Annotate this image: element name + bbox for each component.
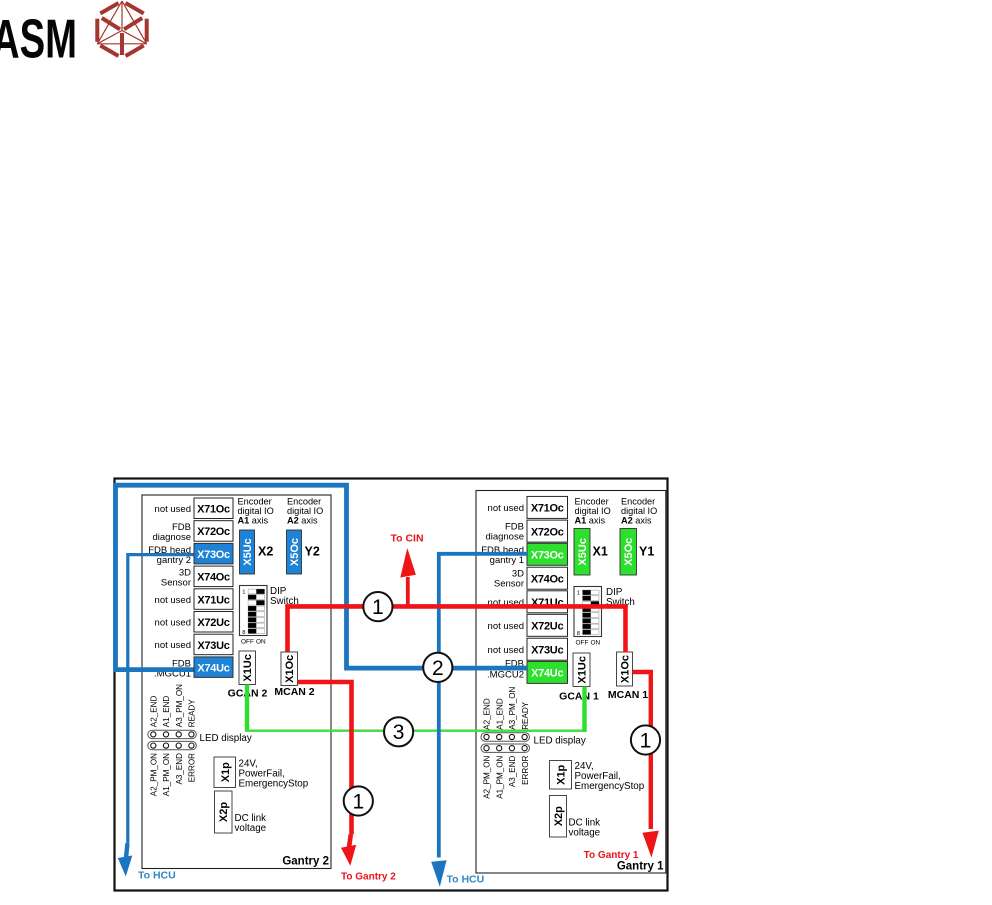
svg-text:Encoder: Encoder	[238, 496, 272, 506]
svg-text:A3_PM_ON: A3_PM_ON	[508, 686, 517, 729]
svg-text:Y2: Y2	[305, 545, 320, 559]
svg-text:X73Oc: X73Oc	[531, 550, 564, 562]
svg-text:not used: not used	[488, 503, 524, 514]
svg-text:1: 1	[242, 590, 245, 596]
connector X71Oc	[527, 496, 568, 518]
svg-text:Encoder: Encoder	[287, 496, 321, 506]
svg-text:not used: not used	[155, 618, 191, 629]
connector X5Uc (Gantry 2)	[240, 530, 255, 574]
svg-text:digital IO: digital IO	[287, 506, 323, 516]
svg-text:GCAN 1: GCAN 1	[559, 691, 599, 703]
svg-text:X72Uc: X72Uc	[531, 621, 563, 633]
svg-text:X2p: X2p	[553, 806, 565, 826]
Gantry 1 board outline	[476, 491, 666, 874]
svg-text:not used: not used	[488, 621, 524, 632]
svg-text:digital IO: digital IO	[575, 506, 611, 516]
svg-text:2: 2	[432, 657, 444, 680]
svg-text:LED display: LED display	[534, 736, 586, 747]
node 1 on red wire to Gantry 1	[631, 725, 660, 754]
svg-text:diagnose: diagnose	[152, 532, 191, 543]
svg-text:READY: READY	[188, 699, 197, 727]
svg-text:ASM: ASM	[0, 8, 77, 70]
arrow to HCU (left)	[126, 844, 127, 859]
connector X1p (Gantry 2)	[214, 757, 236, 788]
wire blue 2: Gantry2 X74Uc to Gantry1 X74Uc	[116, 485, 528, 669]
LED display (Gantry 2)	[148, 730, 197, 738]
connector X74Oc	[527, 567, 568, 589]
svg-text:A1_END: A1_END	[495, 698, 504, 730]
svg-text:EmergencyStop: EmergencyStop	[575, 781, 645, 792]
Gantry 2 board outline	[142, 495, 331, 869]
svg-text:X1Oc: X1Oc	[620, 655, 632, 683]
svg-text:voltage: voltage	[569, 828, 601, 839]
svg-text:MCAN 1: MCAN 1	[608, 689, 648, 701]
svg-text:A2 axis: A2 axis	[621, 516, 652, 526]
svg-text:A2_PM_ON: A2_PM_ON	[150, 753, 159, 796]
connector X71Uc	[527, 591, 568, 613]
svg-text:X74Uc: X74Uc	[197, 662, 229, 674]
svg-text:X2p: X2p	[218, 802, 230, 822]
connector X73Oc	[527, 543, 568, 565]
svg-text:X1: X1	[593, 545, 608, 559]
wire green 3: GCAN2 to GCAN1	[245, 685, 249, 731]
svg-text:8: 8	[242, 630, 245, 636]
svg-text:X71Oc: X71Oc	[531, 503, 564, 515]
svg-text:X71Oc: X71Oc	[197, 504, 230, 516]
svg-text:A3_END: A3_END	[175, 753, 184, 785]
svg-text:Gantry 2: Gantry 2	[282, 856, 329, 868]
wire red to Gantry 1 (from MCAN1)	[633, 672, 651, 829]
svg-text:To HCU: To HCU	[447, 874, 485, 886]
svg-text:8: 8	[577, 631, 580, 637]
svg-text:digital IO: digital IO	[238, 506, 274, 516]
svg-text:1: 1	[577, 591, 580, 597]
svg-text:ON: ON	[256, 639, 266, 646]
svg-text:To Gantry 1: To Gantry 1	[584, 850, 639, 861]
svg-text:A2_END: A2_END	[483, 698, 492, 730]
svg-text:voltage: voltage	[235, 823, 267, 834]
svg-text:.MGCU2: .MGCU2	[487, 670, 524, 681]
outer frame	[115, 479, 668, 891]
svg-text:not used: not used	[155, 595, 191, 606]
connector X72Oc	[194, 521, 233, 542]
svg-text:Sensor: Sensor	[494, 579, 524, 590]
node 1 on red wire to Gantry 2	[344, 786, 373, 815]
svg-text:LED display: LED display	[200, 733, 252, 744]
svg-text:X72Uc: X72Uc	[197, 617, 229, 629]
svg-text:not used: not used	[155, 640, 191, 651]
svg-text:not used: not used	[488, 645, 524, 656]
svg-text:A2 axis: A2 axis	[287, 516, 318, 526]
connector X1Oc MCAN 1	[617, 652, 633, 686]
node 1 (CIN link) on red wire	[363, 592, 392, 621]
connector X73Uc	[527, 638, 568, 660]
svg-text:X5Oc: X5Oc	[289, 538, 301, 566]
svg-text:X74Oc: X74Oc	[531, 574, 564, 586]
svg-text:EmergencyStop: EmergencyStop	[239, 779, 309, 790]
svg-text:Gantry 1: Gantry 1	[617, 861, 664, 873]
svg-text:X74Oc: X74Oc	[197, 572, 230, 584]
svg-text:X73Uc: X73Uc	[197, 640, 229, 652]
svg-text:A2_END: A2_END	[150, 696, 159, 728]
node 3 on green wire	[384, 717, 413, 746]
svg-text:gantry 2: gantry 2	[157, 555, 191, 566]
wire red branch to CIN	[406, 577, 410, 606]
connector X5Oc (Gantry 1)	[620, 529, 637, 576]
svg-text:A1_END: A1_END	[162, 696, 171, 728]
svg-text:To HCU: To HCU	[138, 869, 176, 881]
svg-text:MCAN 2: MCAN 2	[274, 686, 314, 698]
svg-text:X72Oc: X72Oc	[531, 526, 564, 538]
svg-text:X71Uc: X71Uc	[197, 594, 229, 606]
svg-text:X1p: X1p	[556, 764, 568, 784]
svg-text:X5Oc: X5Oc	[623, 538, 635, 566]
svg-text:not used: not used	[155, 504, 191, 515]
svg-text:A2_PM_ON: A2_PM_ON	[483, 755, 492, 798]
svg-text:ERROR: ERROR	[188, 753, 197, 782]
connector X5Oc (Gantry 2)	[287, 530, 302, 574]
svg-text:X1p: X1p	[220, 762, 232, 782]
connector X5Uc (Gantry 1)	[574, 529, 590, 576]
svg-text:X1Oc: X1Oc	[284, 655, 296, 683]
svg-text:1: 1	[372, 596, 384, 619]
connector X73Uc	[194, 634, 233, 655]
svg-text:X74Uc: X74Uc	[531, 668, 563, 680]
svg-text:X2: X2	[258, 545, 273, 559]
arrow to CIN	[400, 548, 416, 578]
svg-text:X73Oc: X73Oc	[197, 549, 230, 561]
arrow to HCU (right)	[431, 860, 446, 887]
svg-text:Encoder: Encoder	[575, 496, 609, 506]
connector X74Oc	[194, 566, 233, 587]
svg-text:1: 1	[352, 790, 364, 813]
connector X1Uc GCAN 1	[573, 653, 590, 687]
connector X1Oc MCAN 2	[281, 652, 298, 686]
svg-text:X5Uc: X5Uc	[577, 538, 589, 566]
wire red 1: MCAN2 to MCAN1 via CIN branch	[288, 606, 626, 652]
svg-text:1: 1	[640, 729, 652, 752]
connector X74Uc	[194, 657, 233, 678]
svg-text:ON: ON	[591, 640, 601, 647]
wire blue to HCU (right, from Gantry1 X73Oc)	[439, 554, 527, 858]
connector X2p (Gantry 1)	[550, 796, 567, 838]
svg-text:Encoder: Encoder	[621, 496, 655, 506]
svg-text:A1 axis: A1 axis	[238, 516, 269, 526]
DIP switch (Gantry 2)	[240, 586, 268, 636]
svg-text:Y1: Y1	[639, 545, 654, 559]
svg-text:3: 3	[393, 721, 405, 744]
svg-text:A3_PM_ON: A3_PM_ON	[175, 684, 184, 727]
svg-text:X5Uc: X5Uc	[242, 538, 254, 566]
svg-text:OFF: OFF	[241, 639, 254, 646]
svg-text:A1 axis: A1 axis	[575, 516, 606, 526]
node 2 on blue wire	[423, 653, 452, 682]
connector X74Uc	[527, 661, 568, 683]
wire red to Gantry 2 (from MCAN2)	[298, 682, 352, 835]
svg-text:Sensor: Sensor	[161, 578, 191, 589]
LED display (Gantry 1)	[481, 733, 530, 741]
svg-text:gantry 1: gantry 1	[490, 555, 524, 566]
svg-text:X1Uc: X1Uc	[577, 656, 589, 684]
svg-text:ERROR: ERROR	[521, 755, 530, 784]
ASM logo hexagon emblem	[97, 1, 146, 56]
connector X71Oc	[194, 498, 233, 519]
svg-text:A1_PM_ON: A1_PM_ON	[495, 755, 504, 798]
arrow to Gantry 2	[349, 835, 351, 850]
DIP switch (Gantry 1)	[574, 587, 602, 637]
connector X1p (Gantry 1)	[550, 761, 572, 790]
svg-text:A3_END: A3_END	[508, 755, 517, 787]
svg-text:READY: READY	[521, 701, 530, 729]
connector X1Uc GCAN 2	[239, 651, 256, 685]
connector X73Oc	[194, 543, 233, 564]
svg-text:X72Oc: X72Oc	[197, 526, 230, 538]
connector X72Uc	[527, 614, 568, 636]
svg-text:A1_PM_ON: A1_PM_ON	[162, 753, 171, 796]
svg-text:To Gantry 2: To Gantry 2	[341, 872, 396, 883]
wire blue to HCU (left, from Gantry2 X73Oc)	[128, 555, 194, 844]
connector X72Oc	[527, 520, 568, 542]
svg-text:X73Uc: X73Uc	[531, 645, 563, 657]
connector X2p (Gantry 2)	[215, 791, 233, 833]
connector X71Uc	[194, 589, 233, 610]
svg-text:To CIN: To CIN	[391, 533, 424, 545]
arrow to Gantry 1	[642, 831, 658, 858]
svg-text:X1Uc: X1Uc	[242, 654, 254, 682]
svg-text:diagnose: diagnose	[485, 532, 524, 543]
svg-text:digital IO: digital IO	[621, 506, 657, 516]
connector X72Uc	[194, 612, 233, 633]
svg-text:OFF: OFF	[576, 640, 589, 647]
